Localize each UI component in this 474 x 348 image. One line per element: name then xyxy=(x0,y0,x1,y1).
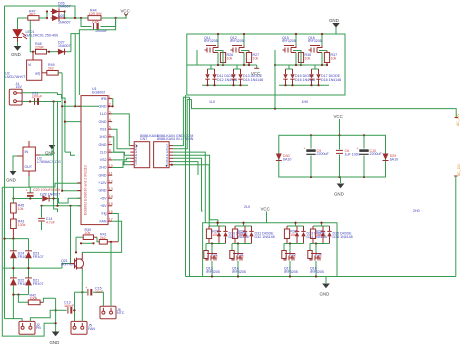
wire VS1 route xyxy=(112,129,130,149)
svg-text:EG8002: EG8002 xyxy=(92,91,105,95)
svg-text:100uF: 100uF xyxy=(32,95,43,99)
wire AC2 down right xyxy=(455,176,457,277)
svg-text:2k2: 2k2 xyxy=(48,66,54,70)
svg-text:D36 1N4148: D36 1N4148 xyxy=(333,235,353,239)
svg-text:IRF3205: IRF3205 xyxy=(230,39,244,43)
diode D25 xyxy=(51,14,71,24)
svg-text:IRF3205: IRF3205 xyxy=(232,270,246,274)
svg-text:1LO: 1LO xyxy=(100,112,107,116)
svg-text:LM317AHVT: LM317AHVT xyxy=(5,75,26,79)
capacitor C11 100uF xyxy=(32,91,43,105)
wire C15 row xyxy=(75,291,88,293)
wire Q21 drain to FAN xyxy=(82,221,121,253)
svg-text:IRF3205: IRF3205 xyxy=(204,39,218,43)
diode D18 1N4148 xyxy=(316,69,341,85)
diode D33 1N4148 xyxy=(295,226,299,244)
diode D21 FR107 xyxy=(25,278,43,286)
connector J5 FAN xyxy=(71,321,95,334)
resistor R29 10k xyxy=(232,222,251,244)
svg-text:6: 6 xyxy=(109,133,111,137)
diode D11 1N4148 xyxy=(205,69,209,85)
pin 5 VS1 xyxy=(108,128,112,130)
capacitor C14 4.7uF xyxy=(38,206,56,230)
wire R48 to D27 xyxy=(47,51,58,53)
optocoupler U6 pins xyxy=(166,144,173,167)
svg-text:IRF3205: IRF3205 xyxy=(308,39,322,43)
pin 13 GND xyxy=(108,190,112,192)
wire bus v1 xyxy=(54,102,58,213)
diode D27 xyxy=(57,41,71,55)
svg-text:D28 1N4007: D28 1N4007 xyxy=(40,192,60,196)
wire outer loop xyxy=(2,187,55,336)
node U5 pin1 mark xyxy=(136,145,138,147)
wire bridge mid xyxy=(12,258,14,278)
svg-text:GND: GND xyxy=(99,120,107,124)
svg-text:6A10: 6A10 xyxy=(390,157,398,161)
wire border drop v192 xyxy=(189,97,191,276)
svg-text:D12 1N4148: D12 1N4148 xyxy=(217,78,237,82)
svg-text:+12V: +12V xyxy=(98,181,107,185)
pin 2 GND xyxy=(108,105,112,107)
svg-text:12R 5W: 12R 5W xyxy=(89,12,103,16)
svg-text:1N4007: 1N4007 xyxy=(58,44,71,48)
svg-text:10k: 10k xyxy=(253,56,259,60)
wire rail to VCC xyxy=(101,17,127,19)
svg-text:8: 8 xyxy=(109,149,111,153)
svg-text:1N4007: 1N4007 xyxy=(58,5,71,9)
wire top block border xyxy=(187,34,345,95)
resistor R36 10k xyxy=(293,51,311,66)
transistor Q12 IRF3205 xyxy=(230,33,245,65)
svg-text:11: 11 xyxy=(109,172,113,176)
wire left rail xyxy=(4,6,6,319)
wire cell mid rail xyxy=(301,64,327,66)
diode D24 FR107 xyxy=(10,251,28,259)
wire cell mid node xyxy=(284,243,304,245)
capacitor C45 1000uF parallel branch xyxy=(81,18,116,33)
capacitor C15 10uF xyxy=(88,286,104,306)
wire bus v3 xyxy=(62,73,81,191)
wire stair to D27 xyxy=(71,18,116,52)
svg-text:10k: 10k xyxy=(85,231,91,235)
node diode right column xyxy=(64,12,66,19)
node stair-IC junction xyxy=(74,105,76,107)
svg-text:IFB: IFB xyxy=(101,97,107,101)
resistor R44 12R 5W xyxy=(88,9,102,21)
diode D30 6A10 xyxy=(276,154,292,162)
svg-text:GND: GND xyxy=(50,340,60,345)
svg-text:GND: GND xyxy=(320,292,330,297)
diode D23 FR107 xyxy=(25,251,43,259)
resistor R30 10k xyxy=(75,228,97,253)
wire cell mid rail xyxy=(275,64,301,66)
wire R45 top col xyxy=(12,187,14,203)
node cap bank feed xyxy=(274,108,276,110)
wire LED drop xyxy=(17,18,19,29)
svg-text:+: + xyxy=(26,188,28,192)
svg-text:GND: GND xyxy=(329,18,339,23)
svg-text:10k: 10k xyxy=(305,56,311,60)
net label AC1 xyxy=(455,114,461,126)
svg-text:Vi: Vi xyxy=(28,63,31,67)
capacitor C10 2200uF xyxy=(359,135,382,177)
svg-text:IN: IN xyxy=(25,150,29,154)
svg-text:OUT: OUT xyxy=(25,165,33,169)
svg-text:D14 1N4148: D14 1N4148 xyxy=(243,78,263,82)
ground GND mid xyxy=(40,145,55,156)
wire cell mid node xyxy=(310,243,330,245)
transistor Q13 IRF3205 xyxy=(206,253,220,278)
wire GND pin4 row xyxy=(65,121,81,123)
resistor R48 220R xyxy=(35,42,47,54)
svg-text:D16 1N4148: D16 1N4148 xyxy=(295,78,315,82)
wire U6 out6 xyxy=(173,162,198,175)
wire top-left loop xyxy=(5,6,76,18)
resistor R49 2k2 xyxy=(47,63,58,75)
transistor Q18 IRF3205 xyxy=(310,253,324,278)
svg-text:adj: adj xyxy=(35,72,40,76)
wire C20 row xyxy=(13,198,42,200)
svg-text:4: 4 xyxy=(109,118,111,122)
wire VS2 route xyxy=(112,158,130,160)
capacitor C6 1uF 100n xyxy=(336,135,360,177)
svg-text:14: 14 xyxy=(109,195,113,199)
node U6 pin1 mark xyxy=(166,165,168,167)
svg-text:VS1: VS1 xyxy=(100,127,107,131)
regulator U3 L7806ACV-DG xyxy=(17,141,61,176)
pin 11 GND xyxy=(108,174,112,176)
resistor R39 10k xyxy=(310,222,329,244)
wire U6 out4 xyxy=(173,155,218,223)
pin 6 1HO xyxy=(108,136,112,138)
resistor R37 10k xyxy=(319,51,337,66)
ground GND bottom block xyxy=(320,277,330,297)
svg-text:5: 5 xyxy=(109,126,111,130)
svg-text:AC_220: AC_220 xyxy=(457,164,461,176)
wire U6 out3 xyxy=(173,152,205,223)
diode D26 xyxy=(51,1,71,14)
resistor R42 100k xyxy=(18,293,43,304)
power flag VCC bottom block xyxy=(261,207,270,223)
wire R42 to gnd col xyxy=(43,298,55,302)
wire cell mid node xyxy=(206,243,226,245)
svg-text:1HO: 1HO xyxy=(99,135,107,139)
wire border-left extension xyxy=(185,95,187,277)
svg-text:GND: GND xyxy=(99,173,107,177)
svg-text:1uF 100n: 1uF 100n xyxy=(345,152,360,156)
svg-text:IRF3205: IRF3205 xyxy=(282,39,296,43)
diode D35 1N4148 xyxy=(321,226,325,244)
pin 3 1LO xyxy=(108,113,112,115)
resistor R27 10k xyxy=(241,51,259,66)
wire GND pin2 inner xyxy=(81,105,99,107)
capacitor C20 100uF/400V xyxy=(26,187,61,198)
wire bus v5 xyxy=(70,206,72,264)
node bank top dots xyxy=(310,134,312,136)
resistor R28 10k xyxy=(206,222,225,244)
svg-text:D32 1N4148: D32 1N4148 xyxy=(255,235,275,239)
wire bridge cols top xyxy=(12,239,14,251)
transistor Q21 IRF740N xyxy=(61,253,84,270)
wire U3 out down xyxy=(29,176,81,187)
wire PB pin1 col xyxy=(13,295,22,322)
svg-text:10k: 10k xyxy=(18,207,24,211)
svg-text:7: 7 xyxy=(135,163,137,167)
svg-text:FAN: FAN xyxy=(88,327,95,331)
diode D15 1N4148 xyxy=(283,69,287,85)
svg-text:GND: GND xyxy=(99,189,107,193)
svg-text:10uF: 10uF xyxy=(95,290,104,294)
svg-text:IRF3205: IRF3205 xyxy=(284,270,298,274)
svg-text:4.7uF: 4.7uF xyxy=(46,221,56,225)
wire C20 top feed xyxy=(2,186,30,188)
svg-text:+: + xyxy=(65,305,67,309)
ground GND u3 left xyxy=(6,156,17,183)
svg-text:EG8002 EG8010 and 2 IR2110: EG8002 EG8010 and 2 IR2110 xyxy=(84,165,88,215)
wire bus v4 xyxy=(64,102,66,152)
svg-text:1L0: 1L0 xyxy=(209,100,215,104)
transistor Q17 IRF3205 xyxy=(284,253,298,278)
wire battery to bus xyxy=(22,101,61,103)
power flag VCC bank xyxy=(334,114,343,135)
diode D29 6A10 xyxy=(383,154,399,162)
wire PB pin2 xyxy=(30,310,55,321)
wire AC out top xyxy=(192,100,457,118)
resistor R41 2k2 xyxy=(97,233,118,245)
diode D13 1N4148 xyxy=(231,69,235,85)
wire U6 out2 up xyxy=(173,100,192,149)
svg-text:2200uF: 2200uF xyxy=(317,152,330,156)
svg-text:10k: 10k xyxy=(227,56,233,60)
svg-text:FR107: FR107 xyxy=(33,282,44,286)
svg-text:2L0: 2L0 xyxy=(244,205,250,209)
svg-text:15: 15 xyxy=(109,202,113,206)
wire bus v2 xyxy=(57,102,59,206)
svg-text:+: + xyxy=(304,147,306,151)
svg-text:FR107: FR107 xyxy=(33,255,44,259)
wire R47 to diode node xyxy=(39,17,47,19)
diode D19 1N4148 xyxy=(217,226,221,244)
diode D31 1N4148 xyxy=(243,226,247,244)
svg-text:2LO: 2LO xyxy=(100,150,107,154)
svg-text:4R7: 4R7 xyxy=(29,13,36,17)
svg-text:+: + xyxy=(357,147,359,151)
svg-text:+: + xyxy=(85,286,87,290)
svg-text:C45: C45 xyxy=(92,20,99,24)
svg-text:CN7: CN7 xyxy=(140,137,147,141)
capacitor C9 2200uF xyxy=(306,135,329,177)
wire R47 row xyxy=(18,17,28,19)
svg-text:9: 9 xyxy=(109,156,111,160)
diode D32 1N4148 xyxy=(249,226,274,244)
diode D16 1N4148 xyxy=(290,69,315,85)
ground GND led xyxy=(11,42,21,57)
diode D14 1N4148 xyxy=(238,69,263,85)
svg-text:VCC: VCC xyxy=(261,207,270,212)
svg-text:GND: GND xyxy=(334,192,344,197)
svg-text:6A10: 6A10 xyxy=(283,157,291,161)
svg-text:7: 7 xyxy=(109,141,111,145)
svg-text:+: + xyxy=(32,95,34,99)
wire bottom output rail xyxy=(186,276,456,278)
wire fan-q21 column xyxy=(74,292,76,321)
svg-text:IRF3205: IRF3205 xyxy=(310,270,324,274)
optocoupler U5 pins xyxy=(130,144,137,167)
wire gate Q21 bridge xyxy=(62,264,71,269)
wire R49 out xyxy=(58,72,62,74)
wire NTC pin2 riser xyxy=(110,242,112,306)
svg-text:12: 12 xyxy=(109,179,113,183)
svg-text:VCC: VCC xyxy=(121,9,130,14)
svg-text:C20 100uF/400V: C20 100uF/400V xyxy=(33,188,61,192)
wire pin rows left bus xyxy=(124,152,130,165)
svg-text:GND: GND xyxy=(6,178,16,183)
wire IFB tie xyxy=(111,99,114,107)
wire cap bank rect xyxy=(279,135,386,177)
svg-text:15V: 15V xyxy=(16,85,23,89)
svg-text:130k: 130k xyxy=(18,223,26,227)
svg-text:1N4007: 1N4007 xyxy=(58,21,71,25)
wire 2LO route xyxy=(112,152,130,155)
svg-text:GND: GND xyxy=(11,52,21,57)
wire cell mid node xyxy=(232,243,252,245)
wire bridge bottom xyxy=(12,285,14,294)
resistor R43 130k xyxy=(11,219,26,239)
pin 8 2LO xyxy=(108,151,112,153)
svg-text:IRF3205: IRF3205 xyxy=(206,270,220,274)
svg-text:GND: GND xyxy=(99,143,107,147)
resistor R45 10k xyxy=(11,203,25,219)
power flag VCC small xyxy=(251,65,260,76)
capacitor C13 100uF xyxy=(56,301,75,314)
svg-text:220R: 220R xyxy=(35,46,44,50)
diode D36 1N4148 xyxy=(327,226,352,244)
optocoupler U6 xyxy=(154,134,194,168)
pin 4 GND xyxy=(108,121,112,123)
wire rail to R44 xyxy=(65,17,89,19)
svg-text:FAN: FAN xyxy=(100,219,107,223)
IC U1 EG8010 xyxy=(81,87,108,225)
wire stair v79 xyxy=(78,34,80,95)
wire Q21 source xyxy=(81,269,83,292)
svg-text:NTC: NTC xyxy=(117,311,125,315)
svg-text:GND: GND xyxy=(99,105,107,109)
svg-text:2k2: 2k2 xyxy=(100,236,106,240)
svg-text:2HO: 2HO xyxy=(99,166,107,170)
pin 10 2HO xyxy=(108,167,112,169)
ground GND top block xyxy=(329,18,340,34)
wire +5V row 15 xyxy=(42,205,82,207)
pin 1 IFB xyxy=(108,98,112,100)
diode D20 1N4148 xyxy=(223,226,248,244)
wire left rail join xyxy=(5,318,14,320)
connector J6 NTC xyxy=(100,306,125,319)
svg-text:2200uF: 2200uF xyxy=(370,152,383,156)
regulator U2 LM317AHVT xyxy=(5,52,47,81)
svg-text:100k: 100k xyxy=(30,297,38,301)
connector J2 PB xyxy=(19,321,41,334)
wire FAN pin2 col xyxy=(81,292,83,321)
svg-text:8088-KA04 IN LF358N: 8088-KA04 IN LF358N xyxy=(157,137,194,141)
wire 2HO route xyxy=(112,162,130,168)
resistor R38 10k xyxy=(284,222,303,244)
svg-text:2H0: 2H0 xyxy=(413,209,420,213)
wire U6 out5 xyxy=(173,158,203,211)
wire top block bottom rail xyxy=(202,84,248,86)
pin 9 VS2 xyxy=(108,159,112,161)
wire trig route xyxy=(112,214,118,242)
svg-text:3: 3 xyxy=(109,110,111,114)
connector J4 15V battery xyxy=(9,82,22,105)
wire GND pin2 row xyxy=(62,105,81,107)
svg-text:trig: trig xyxy=(102,212,107,216)
pin 7 GND xyxy=(108,144,112,146)
svg-text:VS2: VS2 xyxy=(100,158,107,162)
wire R48 feed xyxy=(30,21,35,52)
svg-text:D18 1N4148: D18 1N4148 xyxy=(321,78,341,82)
diode D12 1N4148 xyxy=(212,69,237,85)
power flag VCC xyxy=(121,9,130,19)
wire cell mid rail xyxy=(187,64,257,66)
wire 1LO route xyxy=(112,114,130,146)
svg-text:VCC: VCC xyxy=(334,114,343,119)
ground GND bank xyxy=(334,177,344,197)
wire bridge top xyxy=(5,238,29,240)
wire U6 out7 xyxy=(173,165,209,227)
transistor Q11 IRF3205 xyxy=(204,33,219,65)
wire 1HO route xyxy=(112,137,124,152)
transistor Q15 IRF3205 xyxy=(282,33,297,65)
ground GND bottom center xyxy=(50,332,60,345)
pin 14 +5V xyxy=(108,197,112,199)
svg-text:+5V: +5V xyxy=(100,204,107,208)
wire stair top-right bus xyxy=(74,34,76,107)
svg-text:VCC: VCC xyxy=(251,71,260,76)
wire bus b1 left xyxy=(65,152,75,155)
svg-text:PB: PB xyxy=(36,326,41,330)
transistor Q16 IRF3205 xyxy=(308,33,323,65)
wire D27 up xyxy=(67,51,71,53)
diode D34 1N4148 xyxy=(301,226,326,244)
svg-text:13: 13 xyxy=(109,187,113,191)
diode D17 1N4148 xyxy=(309,69,313,85)
diode D22 FR107 xyxy=(10,278,28,286)
svg-text:AC_220: AC_220 xyxy=(456,114,460,126)
optocoupler U5 xyxy=(134,134,158,168)
pin 17 FAN xyxy=(108,220,112,222)
node diode left column xyxy=(46,12,48,19)
wire battery pin1 row xyxy=(22,92,57,94)
svg-text:10k: 10k xyxy=(331,56,337,60)
svg-text:+5V: +5V xyxy=(100,196,107,200)
LED1 xyxy=(13,30,58,43)
svg-text:1H0: 1H0 xyxy=(302,100,309,104)
pin 16 trig xyxy=(108,213,112,215)
pin 12 +12V xyxy=(108,182,112,184)
svg-text:1: 1 xyxy=(109,95,111,99)
wire U6 out1 up xyxy=(173,97,190,145)
pin 15 +5V xyxy=(108,205,112,207)
wire cell mid rail xyxy=(223,64,249,66)
net label AC2 xyxy=(454,164,461,176)
wire gnd column xyxy=(55,298,57,331)
wire R30 lower link xyxy=(81,242,94,244)
node bank bottom dots xyxy=(310,176,312,178)
transistor Q14 IRF3205 xyxy=(232,253,246,278)
resistor R26 10k xyxy=(215,51,233,66)
wire bottom block border xyxy=(203,223,337,277)
svg-text:7: 7 xyxy=(166,163,168,167)
